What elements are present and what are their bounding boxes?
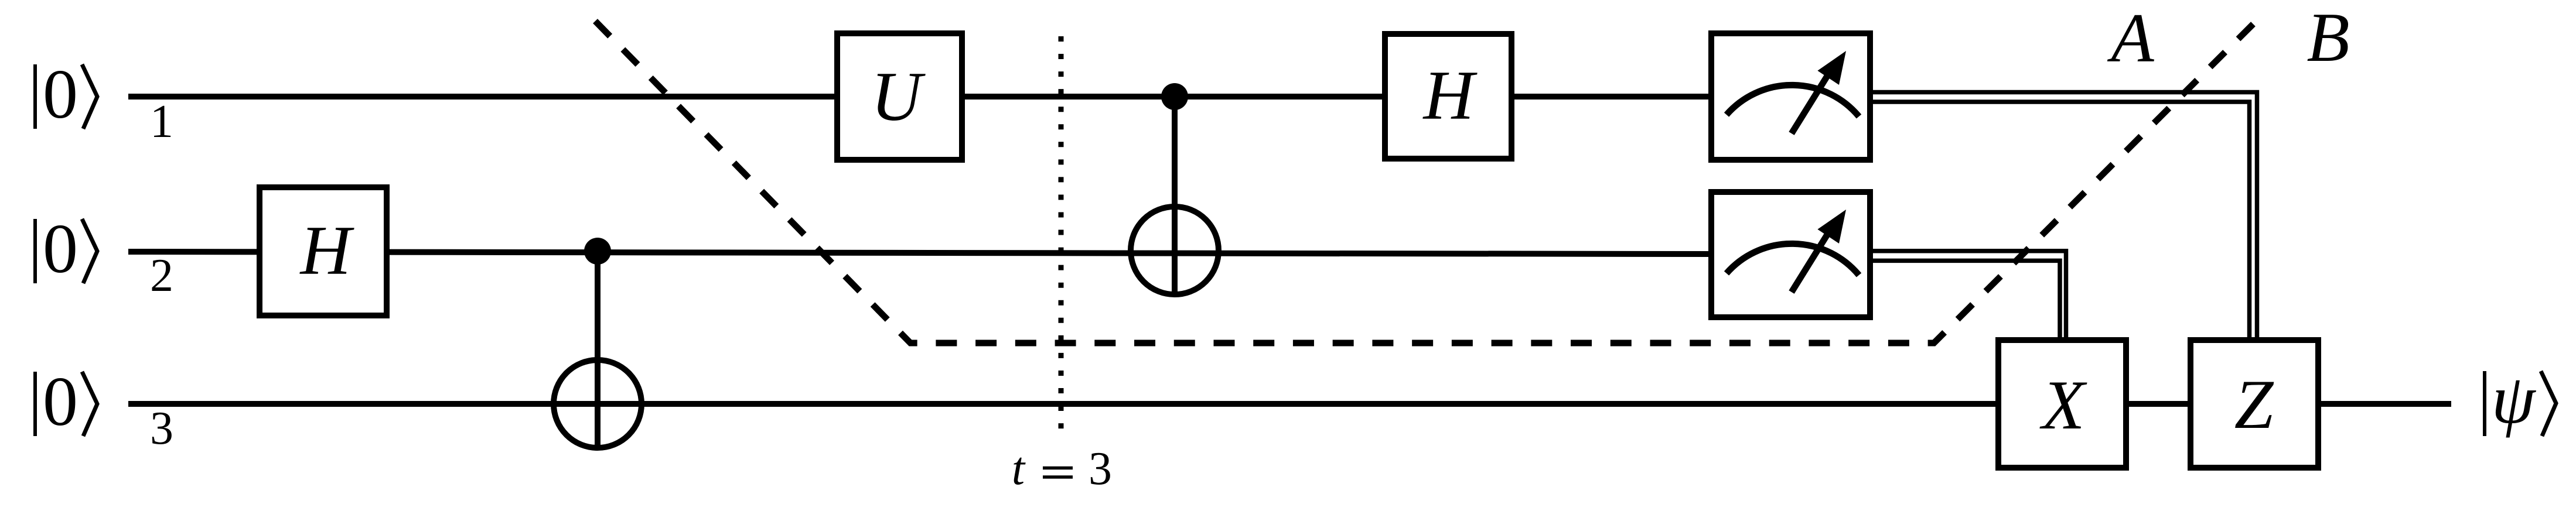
svg-text:H: H (299, 211, 355, 289)
svg-text:H: H (1422, 56, 1478, 134)
measurement meter on qubit 2 (1711, 192, 1870, 317)
CNOT q2->q3 control dot (584, 238, 611, 265)
svg-text:Z: Z (2234, 365, 2274, 443)
CNOT q2->q3 target circle (554, 360, 642, 448)
gate Z on qubit 3 (2191, 340, 2318, 468)
svg-text:2: 2 (150, 250, 173, 301)
svg-text:ψ: ψ (2492, 360, 2537, 438)
output ket |psi> (2485, 360, 2556, 438)
svg-text:t: t (1012, 443, 1026, 495)
svg-text:U: U (871, 57, 926, 135)
svg-text:1: 1 (150, 96, 173, 148)
gate H on qubit 1 (1385, 34, 1512, 159)
ket |0> qubit 1 (35, 55, 97, 133)
classical double wire from meter 1 to Z (1873, 92, 2257, 338)
gate X on qubit 3 (1998, 340, 2126, 468)
CNOT q1->q2 vertical wire (1172, 97, 1178, 294)
classical double wire from meter 2 to X (1873, 251, 2066, 337)
CNOT q1->q2 target circle (1131, 207, 1219, 294)
CNOT q2->q3 vertical wire (595, 251, 601, 448)
svg-text:A: A (2107, 0, 2154, 77)
wire qubit 1 (128, 94, 1711, 100)
wire qubit 2 (128, 252, 1711, 254)
gate H on qubit 2 (260, 187, 387, 315)
svg-text:0: 0 (43, 55, 78, 133)
dashed A/B partition boundary (595, 21, 2253, 343)
ket |0> qubit 2 (35, 210, 97, 287)
svg-text:B: B (2307, 0, 2349, 76)
svg-text:X: X (2039, 366, 2087, 444)
gate U on qubit 1 (837, 33, 962, 160)
dotted time-slice line t=3 (1059, 36, 1064, 429)
svg-text:0: 0 (43, 210, 78, 287)
svg-text:0: 0 (43, 362, 78, 440)
svg-text:3: 3 (150, 403, 173, 454)
wire qubit 3 (128, 401, 2451, 407)
measurement meter on qubit 1 (1711, 33, 1870, 160)
CNOT q1->q2 control dot (1161, 83, 1188, 110)
svg-text:3: 3 (1089, 443, 1112, 495)
ket |0> qubit 3 (35, 362, 97, 440)
